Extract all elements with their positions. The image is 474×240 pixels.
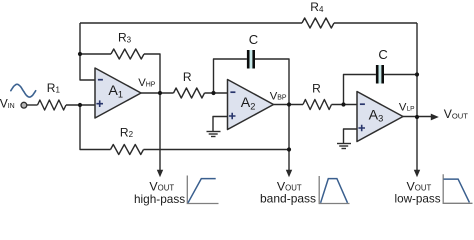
wire A2 noninverting input to ground <box>213 117 228 132</box>
wire VLP node down to low-pass output arrow <box>416 117 418 171</box>
band-pass response icon <box>319 176 349 204</box>
arrow low-pass output <box>414 170 420 177</box>
junction node VLP <box>415 115 419 119</box>
wire top rail right of R4 <box>334 22 417 24</box>
resistor R (first) <box>174 88 205 98</box>
op-amp A2 <box>228 80 274 130</box>
resistor R (second) <box>303 100 332 110</box>
wire R to A2 inverting input <box>205 92 228 94</box>
resistor R4 <box>302 18 334 28</box>
capacitor C2 <box>376 65 384 84</box>
wire R3 left lead <box>80 53 111 55</box>
junction node VHP <box>158 91 162 95</box>
arrow VOUT right <box>431 114 439 121</box>
junction node R2 / VBP branch <box>287 147 291 151</box>
junction node C1 left / A2 inverting <box>211 91 215 95</box>
resistor R1 <box>38 100 67 110</box>
wire top rail left of R4 <box>80 22 302 24</box>
svg-text:R: R <box>183 70 192 84</box>
wire VBP output to R <box>274 104 304 106</box>
input terminal circle <box>21 102 27 108</box>
svg-text:R2: R2 <box>120 126 134 140</box>
op-amp A3 <box>357 92 403 142</box>
resistor R3 <box>111 49 144 59</box>
sine wave source symbol <box>11 84 36 97</box>
wire VBP node down to band-pass output arrow <box>288 105 290 171</box>
op-amp A1 <box>95 68 141 118</box>
wire left vertical from rail to A1 inverting input <box>80 23 95 80</box>
resistor R2 <box>111 145 144 155</box>
high-pass response icon <box>187 176 218 204</box>
ground (A2) <box>207 132 221 137</box>
svg-text:VOUT: VOUT <box>444 107 469 121</box>
ground (A3) <box>337 144 351 149</box>
capacitor C1 <box>247 50 255 69</box>
wire VLP output to arrow <box>403 116 432 118</box>
svg-text:R3: R3 <box>118 31 132 45</box>
svg-text:VOUT: VOUT <box>407 179 432 193</box>
svg-text:band-pass: band-pass <box>260 192 316 206</box>
wire R to A3 inverting input <box>332 104 358 106</box>
wire VHP output to R <box>141 92 174 94</box>
arrow high-pass output <box>157 170 163 177</box>
junction node VBP <box>287 102 291 106</box>
arrow band-pass output <box>286 170 292 177</box>
wire from input terminal to R1 <box>26 104 37 106</box>
svg-text:R4: R4 <box>310 0 324 14</box>
low-pass response icon <box>443 174 472 203</box>
wire A3 noninverting input to ground <box>344 129 358 144</box>
junction node C2 left / A3 inverting <box>341 102 345 106</box>
svg-text:C: C <box>249 32 258 47</box>
wire VHP node down to high-pass output arrow <box>159 93 161 171</box>
svg-text:high-pass: high-pass <box>134 192 185 206</box>
svg-text:VLP: VLP <box>399 101 415 113</box>
wire capacitor C2 right lead <box>384 74 417 76</box>
wire R2 right lead to VBP branch <box>144 149 290 151</box>
wire capacitor C1 right branch <box>255 59 289 105</box>
svg-text:R: R <box>312 81 321 95</box>
svg-text:C: C <box>378 47 387 62</box>
svg-text:VIN: VIN <box>0 96 15 110</box>
junction node at R1 / A1 noninverting <box>78 103 82 107</box>
svg-text:R1: R1 <box>47 81 61 95</box>
svg-text:VBP: VBP <box>270 90 287 102</box>
wire R4 right vertical down to VLP node <box>416 23 418 117</box>
wire capacitor C1 left branch <box>214 59 247 93</box>
svg-text:VHP: VHP <box>138 77 156 89</box>
wire R1 to A1 noninverting input <box>66 104 95 106</box>
wire from noninverting node down to R2 <box>80 105 111 150</box>
wire R3 right lead down to VHP node <box>144 54 160 93</box>
junction node at R3 / A1 inverting <box>78 52 82 56</box>
svg-text:low-pass: low-pass <box>395 192 441 205</box>
wire capacitor C2 left branch <box>344 75 376 105</box>
junction node R4 / C2 right <box>415 72 419 76</box>
